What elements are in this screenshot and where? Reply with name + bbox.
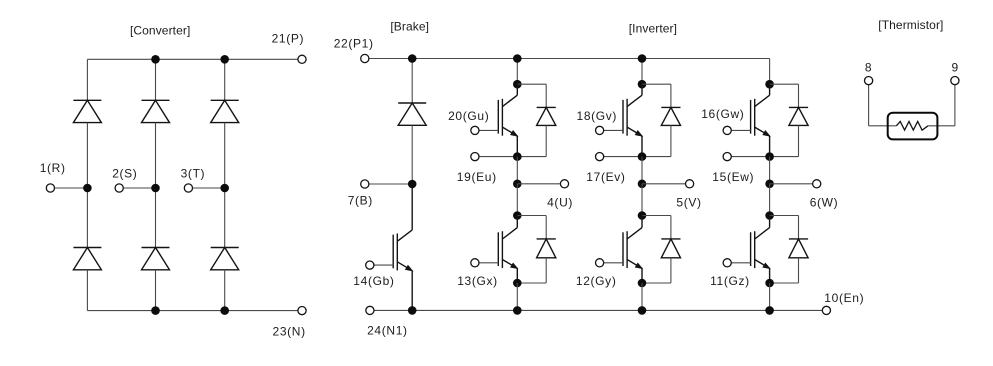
svg-text:6(W): 6(W) bbox=[810, 195, 839, 209]
svg-text:23(N): 23(N) bbox=[273, 325, 306, 339]
junction lower emitter node 4(U) leg bbox=[513, 279, 522, 288]
gate lead wire for IGBT Q2 (lower 4(U) leg) bbox=[475, 262, 498, 264]
wire emitter to phase node 5(V) leg bbox=[641, 157, 643, 184]
wire upper diode branch bottom 5(V) leg bbox=[642, 156, 671, 158]
wire thermistor left lead horizontal bbox=[869, 125, 897, 127]
terminal 20(Gu) gate bbox=[471, 126, 479, 134]
wire converter N rail bbox=[87, 310, 302, 312]
node phase output 5(V) bbox=[638, 180, 647, 189]
diode DF1 (upper freewheel 4(U) leg) bbox=[537, 107, 556, 125]
svg-text:[Inverter]: [Inverter] bbox=[629, 21, 677, 35]
junction upper emitter node 4(U) leg bbox=[513, 152, 522, 161]
svg-text:9: 9 bbox=[952, 61, 959, 75]
diode D5 (converter lower leg2) bbox=[142, 248, 170, 270]
svg-text:20(Gu): 20(Gu) bbox=[448, 109, 489, 123]
node T / leg3 bbox=[220, 184, 229, 193]
svg-text:14(Gb): 14(Gb) bbox=[353, 274, 394, 288]
svg-text:19(Eu): 19(Eu) bbox=[457, 170, 497, 184]
wire lower emitter to N1 rail 4(U) leg bbox=[516, 283, 518, 310]
diode D3 (converter upper leg3) bbox=[211, 100, 239, 122]
diode D4 (converter lower leg1) bbox=[73, 248, 101, 270]
gate lead wire for IGBT Q3 (upper 5(V) leg) bbox=[600, 129, 623, 131]
svg-text:10(En): 10(En) bbox=[824, 291, 864, 305]
wire lower diode cathode-side 6(W) leg bbox=[798, 258, 800, 283]
diode DF5 (upper freewheel 6(W) leg) bbox=[789, 107, 808, 125]
wire upper diode anode-side 5(V) leg bbox=[670, 84, 672, 107]
wire phase output lead 4(U) bbox=[517, 183, 564, 185]
diode D6 (converter lower leg3) bbox=[211, 248, 239, 270]
wire upper diode branch top 5(V) leg bbox=[642, 83, 671, 85]
wire phase output lead 5(V) bbox=[642, 183, 690, 185]
junction upper collector node 6(W) leg bbox=[765, 80, 774, 89]
junction N1 rail 6(W) leg bbox=[765, 306, 774, 315]
junction converter N rail / leg3 bbox=[220, 306, 229, 315]
junction lower collector node 4(U) leg bbox=[513, 211, 522, 220]
wire lower diode branch top 4(U) leg bbox=[517, 215, 546, 217]
wire brake leg upper bbox=[411, 59, 413, 104]
svg-text:16(Gw): 16(Gw) bbox=[701, 107, 744, 121]
junction P1 rail 4(U) leg bbox=[513, 54, 522, 63]
terminal 13(Gx) gate bbox=[471, 259, 479, 267]
terminal 14(Gb) gate bbox=[366, 261, 374, 269]
wire phase output lead 6(W) bbox=[770, 183, 817, 185]
wire upper diode branch top 6(W) leg bbox=[770, 83, 799, 85]
wire converter leg1 upper bbox=[86, 59, 88, 100]
wire phase node to lower collector 5(V) leg bbox=[641, 184, 643, 216]
wire lower diode cathode-side 4(U) leg bbox=[545, 258, 547, 283]
terminal 5(V) output bbox=[686, 180, 694, 188]
junction P1 rail 5(V) leg bbox=[638, 54, 647, 63]
svg-text:4(U): 4(U) bbox=[547, 196, 573, 210]
wire lower diode anode-side 6(W) leg bbox=[798, 216, 800, 239]
wire input S bbox=[119, 187, 155, 189]
wire converter leg2 upper bbox=[155, 59, 157, 100]
terminal 16(Gw) gate bbox=[723, 126, 731, 134]
wire lower diode branch top 6(W) leg bbox=[770, 215, 799, 217]
wire thermistor right lead horizontal bbox=[928, 125, 955, 127]
diode DF6 (lower freewheel 6(W) leg) bbox=[789, 239, 808, 258]
svg-text:15(Ew): 15(Ew) bbox=[712, 170, 754, 184]
svg-text:12(Gy): 12(Gy) bbox=[576, 274, 617, 288]
wire lower diode branch top 5(V) leg bbox=[642, 215, 671, 217]
junction P1 rail / brake leg bbox=[408, 54, 417, 63]
wire upper diode cathode-side 6(W) leg bbox=[798, 125, 800, 156]
terminal 23(N) bbox=[298, 307, 306, 315]
wire brake leg to node B bbox=[411, 125, 413, 184]
junction N1 rail / brake emitter bbox=[408, 306, 417, 315]
wire thermistor left lead vertical bbox=[868, 81, 870, 126]
junction lower collector node 6(W) leg bbox=[765, 211, 774, 220]
node R / leg1 bbox=[83, 184, 92, 193]
terminal 21(P) bbox=[298, 55, 306, 63]
IGBT Q6 (lower 6(W) leg) bbox=[751, 216, 770, 284]
svg-text:18(Gv): 18(Gv) bbox=[577, 109, 618, 123]
svg-text:[Thermistor]: [Thermistor] bbox=[878, 18, 943, 32]
gate lead wire for IGBT Q4 (lower 5(V) leg) bbox=[600, 262, 623, 264]
wire kelvin emitter lead 5(V) leg bbox=[600, 156, 642, 158]
junction upper emitter node 5(V) leg bbox=[638, 152, 647, 161]
wire converter leg2 lower bbox=[155, 270, 157, 311]
junction upper collector node 4(U) leg bbox=[513, 80, 522, 89]
junction lower emitter node 6(W) leg bbox=[765, 279, 774, 288]
wire input R bbox=[50, 187, 87, 189]
svg-text:24(N1): 24(N1) bbox=[367, 323, 408, 337]
junction upper emitter node 6(W) leg bbox=[765, 152, 774, 161]
svg-text:8: 8 bbox=[865, 61, 872, 75]
IGBT Q1 (upper 4(U) leg) bbox=[498, 84, 517, 156]
wire upper diode cathode-side 4(U) leg bbox=[545, 125, 547, 156]
terminal 11(Gz) gate bbox=[723, 259, 731, 267]
diode D2 (converter upper leg2) bbox=[142, 100, 170, 122]
thermistor RT1 resistive element zigzag bbox=[896, 121, 928, 130]
wire 4(U) leg top bbox=[516, 59, 518, 85]
wire lower emitter to N1 rail 5(V) leg bbox=[641, 283, 643, 310]
diode DF3 (upper freewheel 5(V) leg) bbox=[661, 107, 680, 125]
wire lower diode anode-side 5(V) leg bbox=[670, 216, 672, 239]
IGBT Q5 (upper 6(W) leg) bbox=[751, 84, 770, 156]
junction lower collector node 5(V) leg bbox=[638, 211, 647, 220]
svg-text:17(Ev): 17(Ev) bbox=[586, 170, 625, 184]
wire upper diode cathode-side 5(V) leg bbox=[670, 125, 672, 156]
terminal 6(W) output bbox=[813, 180, 821, 188]
svg-text:21(P): 21(P) bbox=[272, 32, 305, 46]
terminal 24(N1) bbox=[366, 306, 374, 314]
wire converter leg3 middle bbox=[224, 123, 226, 248]
svg-text:11(Gz): 11(Gz) bbox=[710, 274, 750, 288]
gate lead wire for IGBT Q1 (upper 4(U) leg) bbox=[475, 129, 498, 131]
IGBT Q2 (lower 4(U) leg) bbox=[498, 216, 517, 284]
terminal 15(Ew) kelvin emitter bbox=[723, 153, 731, 161]
terminal 17(Ev) kelvin emitter bbox=[596, 153, 604, 161]
IGBT Q4 (lower 5(V) leg) bbox=[623, 216, 642, 284]
gate lead wire for IGBT Q6 (lower 6(W) leg) bbox=[727, 262, 750, 264]
diode D7 (brake) bbox=[398, 103, 426, 125]
wire lower emitter to N1 rail 6(W) leg bbox=[769, 283, 771, 310]
wire thermistor right lead vertical bbox=[954, 81, 956, 126]
terminal 18(Gv) gate bbox=[596, 126, 604, 134]
wire kelvin emitter lead 6(W) leg bbox=[727, 156, 769, 158]
wire phase node to lower collector 6(W) leg bbox=[769, 184, 771, 216]
wire upper diode branch bottom 6(W) leg bbox=[770, 156, 799, 158]
wire terminal 7(B) lead bbox=[365, 183, 412, 185]
junction converter P rail / leg3 bbox=[220, 55, 229, 64]
junction converter N rail / leg2 bbox=[151, 306, 160, 315]
terminal 22(P1) bbox=[361, 54, 369, 62]
gate lead wire for IGBT Q7 (brake chopper) bbox=[370, 264, 393, 266]
terminal 19(Eu) kelvin emitter bbox=[471, 153, 479, 161]
wire input T bbox=[188, 187, 224, 189]
svg-text:[Converter]: [Converter] bbox=[130, 23, 190, 37]
terminal 3(T) bbox=[184, 184, 192, 192]
terminal 4(U) output bbox=[560, 180, 568, 188]
wire N1 rail bbox=[370, 309, 827, 311]
wire lower diode branch bottom 6(W) leg bbox=[770, 282, 799, 284]
wire upper diode branch top 4(U) leg bbox=[517, 83, 546, 85]
svg-text:[Brake]: [Brake] bbox=[390, 20, 429, 34]
wire 6(W) leg top bbox=[769, 59, 771, 85]
wire upper diode anode-side 4(U) leg bbox=[545, 84, 547, 107]
node phase output 6(W) bbox=[765, 180, 774, 189]
gate lead wire for IGBT Q5 (upper 6(W) leg) bbox=[727, 129, 750, 131]
svg-text:22(P1): 22(P1) bbox=[334, 37, 374, 51]
wire lower diode branch bottom 5(V) leg bbox=[642, 282, 671, 284]
wire P1 rail bbox=[365, 58, 770, 60]
wire emitter to phase node 4(U) leg bbox=[516, 157, 518, 184]
diode DF4 (lower freewheel 5(V) leg) bbox=[661, 239, 680, 258]
terminal 9 thermistor bbox=[951, 77, 959, 85]
wire lower diode branch bottom 4(U) leg bbox=[517, 282, 546, 284]
wire converter leg1 lower bbox=[86, 270, 88, 311]
junction upper collector node 5(V) leg bbox=[638, 80, 647, 89]
junction N1 rail 4(U) leg bbox=[513, 306, 522, 315]
wire phase node to lower collector 4(U) leg bbox=[516, 184, 518, 216]
junction N1 rail 5(V) leg bbox=[638, 306, 647, 315]
wire converter P rail bbox=[87, 58, 302, 60]
terminal 2(S) bbox=[115, 184, 123, 192]
wire 5(V) leg top bbox=[641, 59, 643, 85]
svg-text:3(T): 3(T) bbox=[181, 167, 206, 181]
wire upper diode anode-side 6(W) leg bbox=[798, 84, 800, 107]
wire converter leg1 middle bbox=[86, 123, 88, 248]
terminal 8 thermistor bbox=[865, 77, 873, 85]
diode DF2 (lower freewheel 4(U) leg) bbox=[537, 239, 556, 258]
svg-text:1(R): 1(R) bbox=[40, 161, 66, 175]
svg-text:13(Gx): 13(Gx) bbox=[457, 274, 498, 288]
junction converter P rail / leg2 bbox=[151, 55, 160, 64]
IGBT Q7 (brake chopper) bbox=[393, 184, 412, 310]
wire converter leg3 upper bbox=[224, 59, 226, 100]
wire lower diode anode-side 4(U) leg bbox=[545, 216, 547, 239]
diode D1 (converter upper leg1) bbox=[73, 100, 101, 122]
wire upper diode branch bottom 4(U) leg bbox=[517, 156, 546, 158]
IGBT Q3 (upper 5(V) leg) bbox=[623, 84, 642, 156]
terminal 7(B) bbox=[361, 180, 369, 188]
node B bbox=[408, 180, 417, 189]
svg-text:7(B): 7(B) bbox=[348, 193, 373, 207]
terminal 12(Gy) gate bbox=[596, 259, 604, 267]
wire converter leg2 middle bbox=[155, 123, 157, 248]
terminal 1(R) bbox=[46, 184, 54, 192]
junction lower emitter node 5(V) leg bbox=[638, 279, 647, 288]
svg-text:5(V): 5(V) bbox=[676, 195, 701, 209]
wire kelvin emitter lead 4(U) leg bbox=[475, 156, 517, 158]
node S / leg2 bbox=[151, 184, 160, 193]
wire lower diode cathode-side 5(V) leg bbox=[670, 258, 672, 283]
terminal 10(En) bbox=[822, 306, 830, 314]
wire emitter to phase node 6(W) leg bbox=[769, 157, 771, 184]
svg-text:2(S): 2(S) bbox=[112, 167, 137, 181]
node phase output 4(U) bbox=[513, 180, 522, 189]
thermistor RT1 body bbox=[888, 113, 938, 140]
wire converter leg3 lower bbox=[224, 270, 226, 311]
